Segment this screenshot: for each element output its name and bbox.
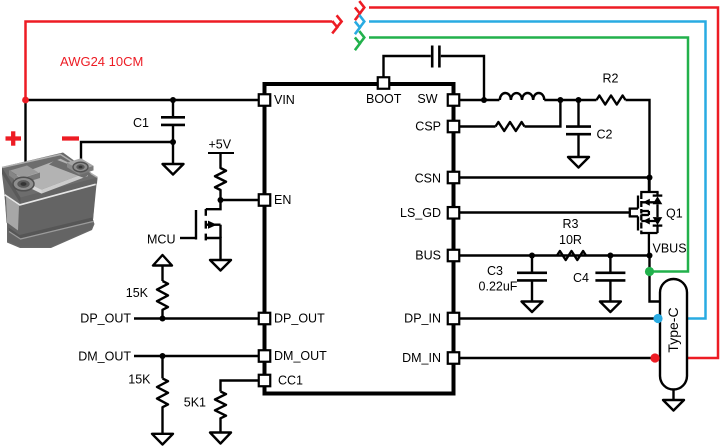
svg-text:CSP: CSP (415, 120, 441, 134)
ground under C1 (163, 142, 184, 175)
svg-text:R3: R3 (563, 217, 579, 231)
pin CSN (415, 172, 460, 186)
ground under 15K pulldown (152, 434, 173, 445)
resistor R5 15K pulldown (128, 356, 168, 434)
svg-text:10R: 10R (559, 233, 582, 247)
pin DP_OUT (259, 312, 325, 326)
wire green VBUS sense loop (369, 38, 688, 272)
wire Q1 source to Type-C VBUS (650, 256, 662, 302)
resistor Rcsp (496, 122, 525, 131)
svg-text:AWG24 10CM: AWG24 10CM (60, 54, 143, 69)
wire SW to inductor (459, 99, 499, 101)
svg-text:C4: C4 (573, 271, 589, 285)
pin BOOT (366, 77, 402, 106)
svg-text:LS_GD: LS_GD (400, 206, 441, 220)
node CSP sense junction (557, 97, 563, 103)
node EN junction (218, 197, 224, 203)
capacitor C2 (566, 100, 613, 157)
pin LS_GD (400, 206, 459, 220)
node DP_OUT junction (160, 316, 166, 322)
node C2 junction (576, 97, 582, 103)
svg-text:DP_OUT: DP_OUT (274, 312, 325, 326)
wire CSN row (459, 176, 650, 178)
pin DM_IN (402, 351, 459, 365)
connector chevrons green wire (355, 31, 364, 50)
svg-text:0.22uF: 0.22uF (479, 280, 518, 294)
svg-text:MCU: MCU (147, 233, 175, 247)
capacitor C1 (133, 100, 185, 142)
pin VIN (259, 93, 295, 107)
power +5V symbol (208, 138, 234, 161)
svg-text:BUS: BUS (415, 249, 441, 263)
resistor R6 5K1 (184, 392, 226, 433)
node DM_IN red tap (650, 353, 659, 362)
svg-text:+5V: +5V (209, 138, 232, 152)
pin CC1 (259, 374, 303, 388)
pin DM_OUT (259, 349, 327, 363)
node BUS-Q1 junction (647, 253, 653, 259)
svg-text:15K: 15K (126, 286, 149, 300)
connector chevrons cyan wire (355, 15, 364, 34)
capacitor boot (432, 46, 439, 68)
wire LS_GD to gate (459, 211, 630, 213)
transistor Q2 MCU nfet (180, 200, 221, 260)
wire boot cap to SW node (441, 56, 484, 100)
node DP_IN cyan tap (653, 314, 662, 323)
wire BOOT up (384, 56, 431, 77)
svg-text:DM_OUT: DM_OUT (78, 350, 131, 364)
wire CSP sense (459, 125, 496, 127)
svg-text:DP_IN: DP_IN (404, 312, 441, 326)
svg-text:CSN: CSN (415, 172, 441, 186)
pin BUS (415, 249, 459, 263)
svg-text:DM_OUT: DM_OUT (274, 349, 327, 363)
resistor R4 15K pullup (126, 266, 168, 319)
svg-text:15K: 15K (128, 373, 151, 387)
ground under C2 (568, 157, 589, 168)
node C1-VIN junction (170, 97, 176, 103)
connector chevrons red top wire (355, 1, 364, 20)
wire red VBUS loop top (369, 8, 718, 359)
capacitor C3 (479, 253, 547, 302)
wire inductor to R2 (544, 99, 596, 101)
ground under C3 (522, 302, 543, 313)
capacitor C4 (573, 253, 625, 302)
wire battery plus lead (24, 100, 26, 184)
wire cyan DP loop (369, 22, 706, 319)
ground under Type-C (663, 400, 684, 411)
battery BT1 (2, 153, 98, 249)
svg-text:DP_OUT: DP_OUT (80, 312, 131, 326)
svg-text:5K1: 5K1 (184, 396, 206, 410)
pin CSP (415, 120, 459, 134)
svg-text:VBUS: VBUS (653, 242, 687, 256)
connector J1 Type-C (660, 279, 687, 390)
wire Type-C shield to ground (672, 390, 674, 401)
inductor L1 (500, 93, 544, 100)
node VBUS green tap (645, 267, 654, 276)
svg-text:R2: R2 (603, 72, 619, 86)
ground under MCU fet (210, 260, 231, 271)
svg-text:SW: SW (417, 92, 437, 106)
node CSN junction (647, 175, 653, 181)
connector chevrons end of AWG24 wire (332, 15, 341, 33)
node C1-gnd junction (170, 139, 176, 145)
wire battery minus lead (81, 142, 173, 168)
wire CC1 to 5K1 (221, 381, 259, 392)
node DM_OUT junction (160, 353, 166, 359)
svg-text:CC1: CC1 (278, 374, 303, 388)
transistor Q1 dual nfet (629, 178, 663, 256)
node red junction at VIN rail (22, 97, 29, 104)
node SW boot junction (481, 97, 487, 103)
transistor Q1 arrows and diodes (643, 199, 650, 206)
transistor Q2 arrow (208, 221, 217, 229)
wire DP_OUT (134, 317, 258, 319)
svg-text:DM_IN: DM_IN (402, 351, 441, 365)
wire DM_IN row (459, 357, 656, 359)
battery minus sign (62, 136, 79, 140)
ground under 5K1 (210, 433, 231, 444)
battery plus sign (6, 131, 22, 145)
arrow to MCU above 15K (153, 255, 172, 266)
wire DP_IN row (459, 317, 658, 319)
pin EN (259, 193, 292, 207)
pin SW (417, 92, 459, 106)
svg-text:EN: EN (274, 193, 291, 207)
wire EN to pin (221, 199, 259, 201)
svg-text:BOOT: BOOT (366, 92, 402, 106)
IC U1 body (265, 84, 454, 394)
wire DM_OUT (134, 355, 258, 357)
svg-text:C3: C3 (487, 264, 503, 278)
svg-text:C1: C1 (133, 116, 149, 130)
svg-text:VIN: VIN (274, 93, 295, 107)
resistor R2 (597, 72, 626, 105)
pin DP_IN (404, 312, 459, 326)
wire CSP up to SW node (525, 100, 561, 127)
wire AWG24 red from battery plus (26, 22, 333, 101)
svg-text:Q1: Q1 (666, 207, 683, 221)
wire VIN rail (26, 99, 259, 101)
wire R2 to Q1 drain column (626, 100, 650, 193)
svg-text:Type-C: Type-C (665, 307, 681, 352)
ground under C4 (600, 302, 621, 313)
svg-text:C2: C2 (597, 128, 613, 142)
resistor R3 10R (557, 217, 586, 260)
wire BUS row (459, 254, 650, 256)
resistor pull-up on EN (215, 160, 226, 200)
